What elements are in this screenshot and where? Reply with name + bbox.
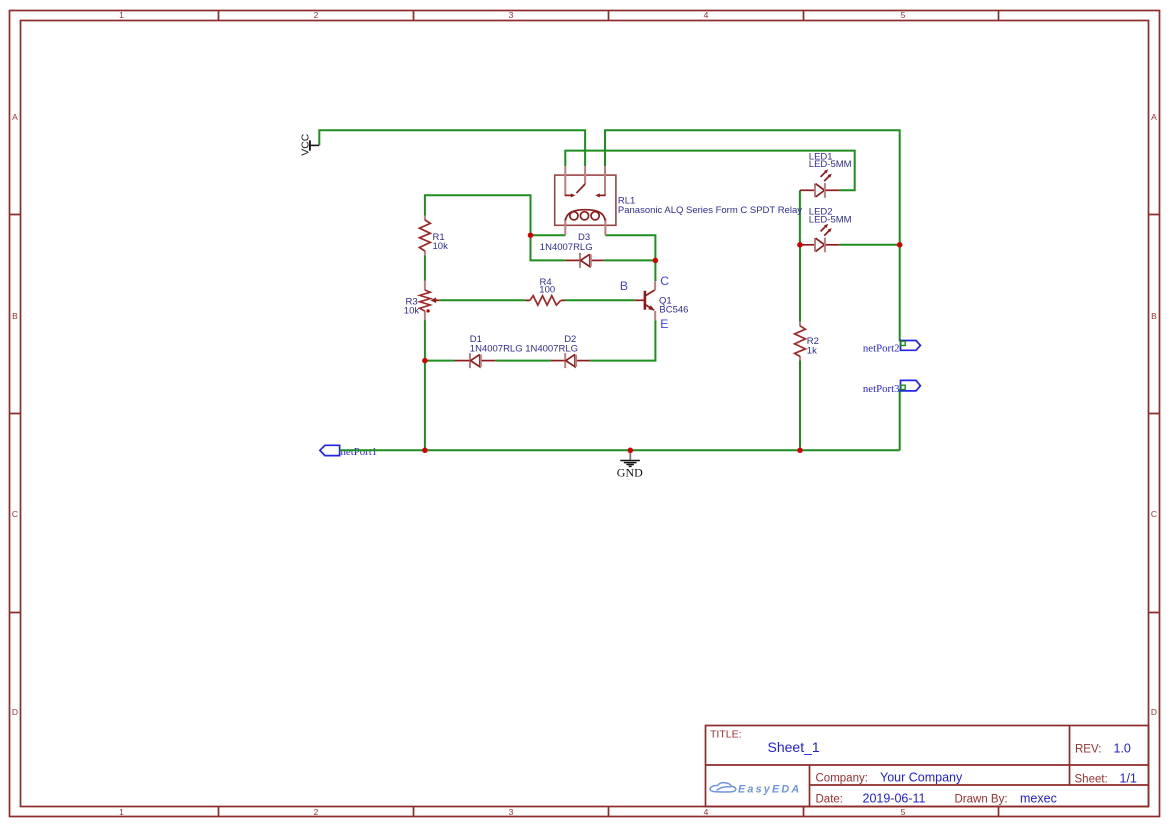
wire VCC to relay pin2 xyxy=(319,130,585,166)
svg-text:1k: 1k xyxy=(807,345,817,356)
wire LED2 cathode to right rail xyxy=(839,244,899,246)
node rail GND xyxy=(628,448,634,454)
resistor R4 xyxy=(525,277,565,305)
node LED2 cathode rail xyxy=(897,242,903,248)
svg-text:netPort1: netPort1 xyxy=(341,446,378,458)
diode D2 xyxy=(525,334,590,368)
LED1 xyxy=(800,151,852,198)
diode D3 xyxy=(540,232,604,268)
svg-text:B: B xyxy=(12,311,18,321)
column numbers top xyxy=(119,10,906,20)
svg-text:A: A xyxy=(1151,112,1157,122)
svg-text:E: E xyxy=(660,317,668,331)
titleblock outline xyxy=(706,726,1149,807)
svg-text:LED-5MM: LED-5MM xyxy=(809,159,852,170)
svg-text:1.0: 1.0 xyxy=(1114,742,1131,756)
svg-text:2: 2 xyxy=(314,807,319,817)
power flag VCC xyxy=(300,133,320,156)
resistor R1 xyxy=(419,216,448,256)
ruler ticks bottom xyxy=(219,807,999,817)
LED2 xyxy=(800,207,852,253)
svg-text:B: B xyxy=(620,279,628,293)
svg-text:mexec: mexec xyxy=(1020,792,1057,806)
wire R3 wiper to R4 xyxy=(439,299,525,301)
transistor Q1 xyxy=(620,274,689,331)
wire Q1 emitter to D2 xyxy=(590,320,656,360)
node rail R2 xyxy=(797,448,803,454)
wire netPort3 to rail xyxy=(899,389,901,450)
svg-text:Drawn By:: Drawn By: xyxy=(955,794,1008,806)
svg-text:10k: 10k xyxy=(433,241,449,252)
SCHEMATIC xyxy=(300,130,921,479)
wire ground rail xyxy=(340,449,900,451)
wire relay pin3 to right rail xyxy=(605,130,900,341)
ground GND xyxy=(617,452,643,480)
svg-text:Date:: Date: xyxy=(816,794,844,806)
row letters right xyxy=(1151,112,1157,717)
column numbers bottom xyxy=(119,807,906,817)
wire relay pin5 to node C xyxy=(605,235,655,260)
EasyEDA logo cloud xyxy=(710,783,736,792)
potentiometer R3 xyxy=(404,281,440,321)
svg-text:1/1: 1/1 xyxy=(1120,772,1137,786)
wire R3 bottom to rail xyxy=(424,320,426,450)
node LED2 anode xyxy=(797,242,803,248)
ruler ticks right xyxy=(1149,215,1160,613)
svg-text:1: 1 xyxy=(119,10,124,20)
wire node to D3 anode xyxy=(531,235,566,260)
wire D3 cathode to node C xyxy=(604,259,656,261)
svg-text:Panasonic ALQ Series Form C SP: Panasonic ALQ Series Form C SPDT Relay xyxy=(618,205,802,216)
diode D1 xyxy=(454,334,522,368)
svg-text:5: 5 xyxy=(901,10,906,20)
wire LED2 node to R2 top xyxy=(799,245,801,322)
wire node C to Q1 collector xyxy=(654,260,656,281)
svg-text:A: A xyxy=(12,112,18,122)
svg-text:LED-5MM: LED-5MM xyxy=(809,214,852,225)
svg-text:4: 4 xyxy=(704,807,709,817)
svg-text:EasyEDA: EasyEDA xyxy=(738,784,801,796)
svg-text:GND: GND xyxy=(617,466,643,480)
svg-text:3: 3 xyxy=(509,10,514,20)
svg-text:Sheet_1: Sheet_1 xyxy=(768,739,820,755)
svg-text:2019-06-11: 2019-06-11 xyxy=(863,792,926,806)
svg-text:netPort3: netPort3 xyxy=(863,383,900,395)
svg-text:netPort2: netPort2 xyxy=(863,342,900,354)
svg-text:C: C xyxy=(12,509,18,519)
wire R2 bottom to rail xyxy=(799,360,801,450)
svg-text:1N4007RLG: 1N4007RLG xyxy=(470,343,523,354)
svg-text:4: 4 xyxy=(704,10,709,20)
svg-text:C: C xyxy=(660,274,669,288)
wire relay pin1 to LED1 cathode xyxy=(565,151,854,191)
junction nodes xyxy=(422,232,902,453)
net port netPort1 xyxy=(320,445,377,458)
wire R1 top to relay pin4 xyxy=(425,195,565,235)
relay RL1 xyxy=(555,166,803,235)
svg-text:1: 1 xyxy=(119,807,124,817)
svg-text:D: D xyxy=(1151,707,1157,717)
wire R4 to Q1 base xyxy=(565,299,635,301)
titleblock dividers xyxy=(706,726,1149,807)
svg-text:REV:: REV: xyxy=(1075,744,1101,756)
ruler ticks left xyxy=(10,215,21,613)
svg-text:2: 2 xyxy=(314,10,319,20)
svg-text:Sheet:: Sheet: xyxy=(1075,774,1108,786)
svg-text:1N4007RLG: 1N4007RLG xyxy=(540,242,593,253)
resistor R2 xyxy=(795,322,819,361)
svg-text:Your Company: Your Company xyxy=(880,771,963,785)
wire node to D1 anode xyxy=(425,360,455,362)
svg-text:D: D xyxy=(12,707,18,717)
node R3/D1 xyxy=(422,358,428,364)
svg-text:BC546: BC546 xyxy=(659,305,688,316)
wire LED1 to LED2 node xyxy=(799,190,801,245)
net port netPort3 xyxy=(863,380,920,395)
svg-text:1N4007RLG: 1N4007RLG xyxy=(525,343,578,354)
wire D1 to D2 xyxy=(495,360,551,362)
ruler ticks top xyxy=(219,11,999,21)
node rail left xyxy=(422,448,428,454)
wire R1 bottom to R3 top xyxy=(424,255,426,280)
svg-text:Company:: Company: xyxy=(816,773,868,785)
svg-text:3: 3 xyxy=(509,807,514,817)
svg-text:C: C xyxy=(1151,509,1157,519)
svg-text:100: 100 xyxy=(539,285,555,296)
svg-text:TITLE:: TITLE: xyxy=(710,729,742,741)
TITLEBLOCK xyxy=(706,726,1149,807)
svg-text:B: B xyxy=(1151,311,1157,321)
net port netPort2 xyxy=(863,341,920,355)
node R1/relay/D3 xyxy=(528,232,534,238)
node C (D3/relay/collector) xyxy=(653,258,659,264)
row letters left xyxy=(12,112,18,717)
svg-text:5: 5 xyxy=(901,807,906,817)
svg-text:VCC: VCC xyxy=(300,133,312,156)
svg-text:10k: 10k xyxy=(404,305,420,316)
